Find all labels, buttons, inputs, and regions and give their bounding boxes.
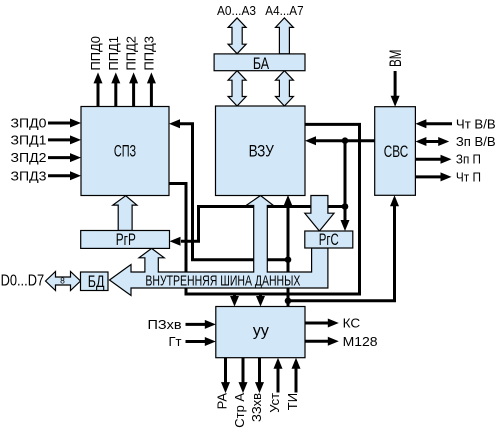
output Чт П	[415, 169, 481, 184]
svg-text:СВС: СВС	[384, 142, 408, 161]
junction node branch to СВС bottom	[285, 298, 292, 305]
output ЗЗхв	[249, 358, 264, 422]
svg-text:ВНУТРЕННЯЯ ШИНА ДАННЫХ: ВНУТРЕННЯЯ ШИНА ДАННЫХ	[145, 273, 300, 290]
input ЗПД2	[11, 150, 82, 165]
block БА	[214, 54, 305, 71]
arrowhead into УУ top stub1	[230, 296, 239, 307]
block РгС	[305, 231, 353, 248]
svg-text:ЗПД0: ЗПД0	[11, 116, 47, 131]
output ППД0	[88, 36, 103, 107]
input ТИ	[285, 358, 300, 410]
input Уст	[267, 358, 282, 413]
svg-text:БД: БД	[88, 272, 105, 291]
arrowhead into ВЗУ right	[305, 136, 316, 145]
arrowhead into ВЗУ bottom	[284, 195, 293, 206]
block УУ	[216, 307, 305, 358]
wire УУ to ВЗУ vertical (x=288)	[287, 204, 290, 307]
output ППД2	[124, 36, 139, 107]
input ЗПД1	[11, 133, 82, 148]
svg-text:ВМ: ВМ	[386, 50, 405, 68]
svg-text:8: 8	[60, 275, 65, 285]
block БД	[81, 272, 109, 291]
svg-text:М128: М128	[343, 334, 378, 349]
svg-text:ПЗхв: ПЗхв	[148, 317, 182, 332]
svg-text:Зп П: Зп П	[456, 152, 481, 167]
block arrow ВЗУ to РгС	[305, 196, 334, 232]
double block arrow A0-A3 to БА	[228, 18, 246, 54]
output М128	[305, 334, 378, 349]
output КС	[305, 316, 360, 331]
arrowhead into УУ top stub2	[256, 296, 265, 307]
svg-text:ТИ: ТИ	[285, 393, 300, 410]
svg-text:ППД2: ППД2	[124, 36, 139, 71]
block arrow A4-A7 to БА	[276, 18, 294, 54]
arrowhead into СВС bottom	[390, 195, 399, 206]
svg-text:РА: РА	[215, 393, 230, 410]
svg-text:Уст: Уст	[267, 393, 282, 413]
svg-text:ЗЗхв: ЗЗхв	[249, 393, 264, 422]
output ППД3	[141, 36, 156, 107]
junction node on СВС-ВЗУ wire	[342, 137, 349, 144]
input Чт В/В	[415, 116, 495, 131]
svg-text:A4...A7: A4...A7	[265, 3, 303, 18]
arrowhead into СПЗ right	[169, 119, 180, 128]
svg-text:Стр А: Стр А	[232, 393, 247, 428]
block СПЗ	[81, 107, 169, 196]
svg-text:ППД1: ППД1	[106, 36, 121, 71]
bidir Зп В/В	[415, 134, 495, 149]
input ВМ	[386, 50, 405, 107]
junction node on x345 branch	[342, 203, 349, 210]
output РА	[215, 358, 230, 410]
svg-text:D0...D7: D0...D7	[1, 272, 45, 289]
input ПЗхв	[148, 317, 216, 332]
svg-text:СПЗ: СПЗ	[114, 141, 136, 160]
svg-text:ЗПД1: ЗПД1	[11, 133, 47, 148]
junction node on УУ-ВЗУ line at W3	[285, 256, 292, 263]
internal data bus complex with taps	[110, 196, 328, 296]
output Зп П	[415, 152, 481, 167]
double block arrow БА to ВЗУ left	[228, 71, 246, 106]
double block arrow БА to ВЗУ right	[276, 71, 294, 106]
svg-text:ППД0: ППД0	[88, 36, 103, 71]
block РгР	[81, 231, 170, 249]
input ЗПД3	[11, 168, 82, 183]
output Стр А	[232, 358, 247, 428]
double block arrow D0-D7 to БД (8 bit)	[46, 272, 81, 291]
svg-text:ЗПД3: ЗПД3	[11, 168, 47, 183]
input ЗПД0	[11, 116, 82, 131]
block arrow РгР to СПЗ	[113, 196, 137, 231]
svg-text:Гт: Гт	[169, 334, 182, 349]
block ВЗУ	[216, 106, 306, 196]
wire УУ-line to СПЗ (W3)	[179, 124, 288, 260]
output ППД1	[106, 36, 121, 107]
svg-text:РгС: РгС	[319, 230, 339, 249]
input Гт	[169, 334, 216, 349]
svg-text:БА: БА	[253, 54, 270, 73]
svg-text:Зп В/В: Зп В/В	[456, 134, 496, 149]
svg-text:уу: уу	[253, 323, 269, 340]
arrowhead into РгР right	[170, 237, 181, 246]
wire branch УУ to СВС bottom	[288, 205, 395, 301]
svg-text:РгР: РгР	[116, 230, 136, 249]
svg-text:ЗПД2: ЗПД2	[11, 150, 47, 165]
svg-text:ППД3: ППД3	[141, 36, 156, 71]
block СВС	[375, 107, 416, 196]
svg-text:A0...A3: A0...A3	[217, 3, 256, 18]
wire СПЗ-СВС loop via bottom (W5)	[169, 124, 360, 297]
svg-text:КС: КС	[343, 316, 361, 331]
arrowhead into РгС top	[341, 220, 350, 231]
svg-text:ВЗУ: ВЗУ	[249, 142, 274, 161]
svg-text:Чт П: Чт П	[456, 169, 481, 184]
svg-text:Чт В/В: Чт В/В	[456, 116, 496, 131]
wire СВС to ВЗУ / РгР / РгС (W6)	[181, 141, 375, 242]
